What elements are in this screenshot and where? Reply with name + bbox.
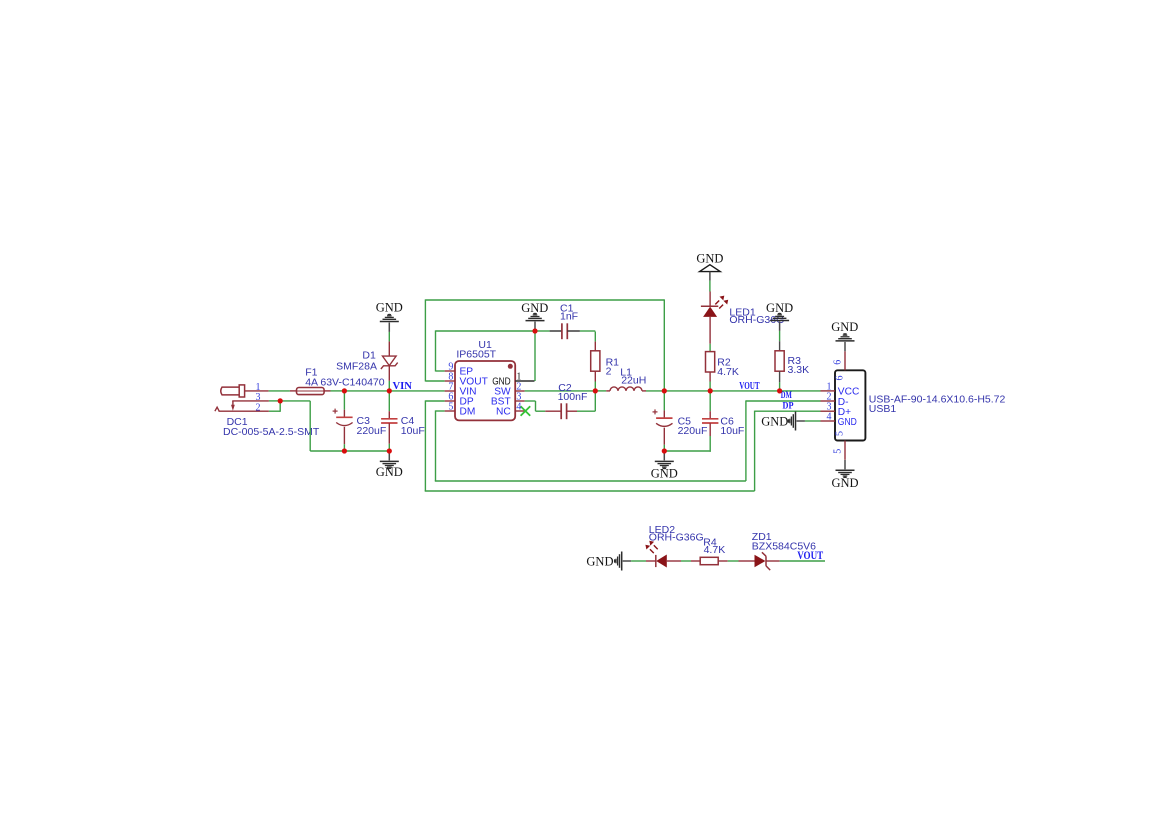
pin number 1 of DC1: [256, 382, 261, 393]
label R1: [606, 357, 620, 369]
node C5 bottom junction: [662, 448, 667, 453]
svg-text:USB1: USB1: [869, 403, 897, 415]
label D1: [362, 350, 376, 362]
wire BST pin3 to C2: [525, 401, 546, 411]
pin number 4 USB1: [827, 411, 832, 422]
capacitor C5: [653, 391, 673, 451]
wire VOUT pin8 loop via top rail: [425, 299, 664, 381]
wire DP net U1 pin6 to USB D+: [425, 400, 821, 491]
pin name BST: [491, 397, 511, 408]
svg-text:3.3K: 3.3K: [788, 364, 810, 376]
pin name GND U1: [492, 377, 511, 388]
label GND above D1: [376, 301, 403, 315]
svg-text:VOUT: VOUT: [739, 381, 760, 392]
svg-text:220uF: 220uF: [357, 425, 387, 437]
svg-text:10uF: 10uF: [720, 425, 744, 437]
label USB1: [869, 403, 897, 415]
pin 7 VIN of U1: [445, 390, 455, 392]
resistor R2: [706, 344, 715, 391]
wire EP pin9 to gnd row: [436, 330, 536, 371]
net label DP: [783, 401, 794, 411]
label GND at C1 row: [521, 301, 548, 315]
svg-text:100nF: 100nF: [558, 391, 588, 403]
label L1: [620, 366, 632, 378]
label 22uH: [621, 375, 646, 387]
svg-text:GND: GND: [376, 301, 403, 315]
node C3 top junction: [342, 388, 347, 393]
label C3: [357, 415, 371, 427]
pin 3 of DC1: [232, 400, 269, 402]
svg-text:6: 6: [835, 376, 846, 381]
connector DC1 sleeve contact: [215, 407, 219, 411]
svg-text:DM: DM: [781, 391, 792, 401]
ground below C4: [380, 451, 399, 469]
label DC1: [227, 416, 248, 428]
wire U1 pin1 up to gnd row: [534, 331, 536, 381]
ground above R3: [770, 313, 789, 342]
fuse F1: [290, 388, 331, 395]
svg-text:6: 6: [832, 360, 843, 365]
label GND above LED1: [696, 252, 723, 266]
pin number 3 U1: [516, 392, 521, 403]
wire LED2 to R4: [681, 560, 691, 562]
label R1 value 2: [606, 366, 612, 378]
pin number 2 USB1: [827, 391, 832, 402]
label ORH-G36G LED2: [649, 532, 704, 544]
svg-text:10uF: 10uF: [401, 425, 425, 437]
pin name VCC: [838, 387, 860, 398]
resistor R1: [591, 332, 600, 391]
wire R2 node to R3 node: [710, 390, 779, 392]
capacitor C4: [381, 391, 397, 451]
pin number 3 of DC1: [256, 392, 261, 403]
wire DM net U1 pin5 to USB D-: [435, 400, 821, 481]
pin 4 NC of U1: [515, 410, 524, 412]
pin number 6 inside USB1: [835, 376, 846, 381]
label C1: [560, 302, 574, 314]
label GND left of LED2: [586, 555, 613, 569]
capacitor C1: [535, 323, 595, 339]
svg-text:22uH: 22uH: [621, 375, 646, 387]
label 100nF: [558, 391, 588, 403]
svg-text:4A 63V-C140470: 4A 63V-C140470: [305, 377, 385, 389]
ground above USB1 pin6: [836, 333, 855, 351]
node VIN junction: [387, 388, 392, 393]
pin name GND USB1: [838, 417, 857, 428]
capacitor C2: [545, 403, 595, 419]
label SMF28A: [336, 360, 377, 372]
pin name NC: [496, 407, 511, 418]
pin number 6 outside USB1: [832, 360, 843, 365]
label LED1: [729, 306, 755, 318]
wire F1 to C3 node: [331, 390, 345, 392]
pin 2 D- of USB1: [821, 400, 836, 402]
svg-text:4: 4: [516, 402, 521, 413]
svg-text:DP: DP: [783, 401, 794, 411]
svg-text:220uF: 220uF: [678, 425, 708, 437]
wire L1 to VOUT node: [646, 390, 664, 392]
svg-text:VIN: VIN: [393, 381, 413, 392]
ground below USB1 pin5: [836, 460, 855, 478]
pin number 5 inside USB1: [835, 431, 846, 436]
pin 1 VCC of USB1: [821, 390, 836, 392]
wire C2 up to SW node: [594, 391, 596, 411]
label ORH-G36G LED1: [729, 314, 784, 326]
pin name DP: [460, 397, 474, 408]
pin 3 D+ of USB1: [821, 410, 836, 412]
node R2 junction: [708, 388, 713, 393]
inductor L1: [606, 387, 646, 391]
wire C3 node to VIN node: [344, 390, 389, 392]
label 1nF: [560, 310, 578, 322]
label DC-005-5A-2.5-SMT: [223, 426, 320, 438]
svg-text:DM: DM: [460, 407, 476, 418]
label 4.7K R2: [717, 366, 739, 378]
label GND below C4: [376, 465, 403, 479]
net label VIN: [393, 381, 413, 392]
svg-text:GND: GND: [586, 555, 613, 569]
svg-text:GND: GND: [651, 467, 678, 481]
label IP6505T: [456, 349, 496, 361]
ground below C5: [655, 451, 674, 469]
label C2: [558, 382, 572, 394]
capacitor C3: [333, 391, 353, 451]
pin 4 GND of USB1: [821, 420, 836, 422]
wire VIN node to U1 pin7: [389, 390, 444, 392]
svg-text:2: 2: [606, 366, 612, 378]
pin 1 of DC1: [245, 390, 269, 392]
svg-text:2: 2: [256, 402, 261, 413]
label U1: [478, 339, 492, 351]
label R3: [788, 355, 802, 367]
diode ZD1 BZX584C5V6: [739, 552, 780, 570]
pin name SW: [494, 387, 511, 398]
label 3.3K: [788, 364, 810, 376]
wire bottom rail C3-C4: [344, 450, 389, 452]
label BZX584C5V6: [752, 540, 816, 552]
pin number 1 USB1: [827, 381, 832, 392]
pin number 1 U1: [516, 372, 521, 383]
svg-text:4.7K: 4.7K: [717, 366, 739, 378]
net label VOUT bottom: [797, 550, 823, 562]
label GND below C5: [651, 467, 678, 481]
pin number 2 U1: [516, 382, 521, 393]
pin number 3 USB1: [827, 402, 832, 413]
wire VOUT node up to top rail: [663, 299, 665, 391]
pin 6 DP of U1: [445, 400, 455, 402]
pin name D-: [838, 397, 849, 408]
LED LED1 ORH-G36G: [701, 281, 728, 344]
label 10uF: [401, 425, 425, 437]
label LED2: [649, 524, 675, 536]
label 10uF C6: [720, 425, 744, 437]
label C5: [678, 415, 692, 427]
pin name VOUT: [460, 377, 488, 388]
label ZD1: [752, 531, 772, 543]
node C3 bottom junction: [342, 448, 347, 453]
svg-text:5: 5: [832, 449, 843, 454]
pin 3 BST of U1: [515, 400, 524, 402]
svg-text:ORH-G36G: ORH-G36G: [649, 532, 704, 544]
wire junction to bottom rail: [280, 401, 344, 451]
label 220uF C5: [678, 425, 708, 437]
pin number 5 U1: [448, 402, 453, 413]
svg-text:5: 5: [448, 402, 453, 413]
connector DC1 barrel jack body: [221, 385, 245, 397]
pin name EP: [460, 367, 474, 378]
resistor R3: [775, 341, 784, 391]
label 4.7K R4: [704, 544, 726, 556]
net label VOUT: [739, 381, 760, 392]
label 4A 63V-C140470: [305, 377, 385, 389]
wire R4 to ZD1: [728, 560, 739, 562]
label USB-AF-90-14.6X10.6-H5.72: [869, 393, 1006, 405]
pin number 9 U1: [448, 362, 453, 373]
wire SW node to L1: [595, 390, 606, 392]
pin number 7 U1: [448, 382, 453, 393]
pin 1 GND of U1: [515, 380, 534, 382]
wire C5-C6 bottom rail: [664, 450, 711, 451]
label 220uF: [357, 425, 387, 437]
pin 2 SW of U1: [515, 390, 524, 392]
label F1: [305, 367, 317, 379]
label C4: [401, 415, 415, 427]
node R3 junction: [777, 388, 782, 393]
svg-text:5: 5: [835, 431, 846, 436]
svg-text:GND: GND: [761, 414, 788, 428]
label GND at USB1 pin4: [761, 414, 788, 428]
svg-text:GND: GND: [831, 476, 858, 490]
connector DC1 switch arm with arrow: [231, 401, 235, 411]
wire ZD1 to VOUT: [780, 560, 825, 562]
label C6: [720, 415, 734, 427]
node VOUT junction: [662, 388, 667, 393]
pin 9 EP of U1: [445, 370, 455, 372]
label GND below pin5: [831, 476, 858, 490]
ground above LED1: [700, 265, 721, 281]
diode D1 SMF28A: [381, 332, 398, 391]
pin name D+: [838, 407, 851, 418]
svg-text:1nF: 1nF: [560, 310, 578, 322]
wire VOUT node to R2 node: [664, 390, 710, 392]
capacitor C6: [702, 391, 718, 450]
connector USB1 body: [835, 370, 865, 440]
wire SW pin2 to node: [525, 390, 596, 392]
label GND above pin6: [831, 320, 858, 334]
svg-text:VOUT: VOUT: [797, 550, 823, 562]
svg-text:GND: GND: [521, 301, 548, 315]
svg-text:4.7K: 4.7K: [704, 544, 726, 556]
pin 6 of USB1: [844, 351, 846, 370]
pin number 8 U1: [448, 372, 453, 383]
pin 5 DM of U1: [445, 410, 455, 412]
pin number 4 U1: [516, 402, 521, 413]
resistor R4: [691, 557, 728, 564]
pin 5 of USB1: [844, 441, 846, 460]
wire pin1 to F1: [269, 390, 290, 392]
wire R3 node to USB VCC: [780, 390, 821, 392]
ground above C1 junction: [526, 313, 545, 331]
wire pin3 to junction: [269, 400, 280, 402]
svg-text:GND: GND: [376, 465, 403, 479]
node C4 bottom junction: [387, 448, 392, 453]
node C1 gnd junction: [532, 328, 537, 333]
svg-text:GND: GND: [838, 417, 857, 428]
node junction of DC1 pins 2-3: [278, 398, 283, 403]
ground left of LED2: [614, 552, 631, 571]
svg-text:GND: GND: [766, 301, 793, 315]
wire gnd to LED2: [631, 560, 646, 562]
svg-text:4: 4: [827, 411, 832, 422]
pin name DM: [460, 407, 476, 418]
net label DM: [781, 391, 792, 401]
ground above D1: [380, 314, 399, 332]
label R2: [717, 357, 731, 369]
svg-text:GND: GND: [696, 252, 723, 266]
IC U1 IP6505T body: [455, 361, 515, 420]
ground at USB1 pin4: [788, 412, 821, 431]
svg-text:DC-005-5A-2.5-SMT: DC-005-5A-2.5-SMT: [223, 426, 320, 438]
label R4: [703, 536, 717, 548]
LED LED2 ORH-G36G: [645, 541, 681, 568]
pin number 2 of DC1: [256, 402, 261, 413]
pin number 6 U1: [448, 392, 453, 403]
pin name VIN: [460, 387, 477, 398]
pin number 5 outside USB1: [832, 449, 843, 454]
svg-text:GND: GND: [831, 320, 858, 334]
wire pin2 up to junction: [269, 401, 280, 412]
pin 2 of DC1: [219, 410, 269, 412]
no-connect marker on pin 4: [521, 406, 531, 416]
pin 8 VOUT of U1: [445, 380, 455, 382]
svg-text:SMF28A: SMF28A: [336, 360, 377, 372]
svg-text:NC: NC: [496, 407, 511, 418]
svg-text:IP6505T: IP6505T: [456, 349, 496, 361]
node SW junction: [593, 388, 598, 393]
label GND above R3: [766, 301, 793, 315]
